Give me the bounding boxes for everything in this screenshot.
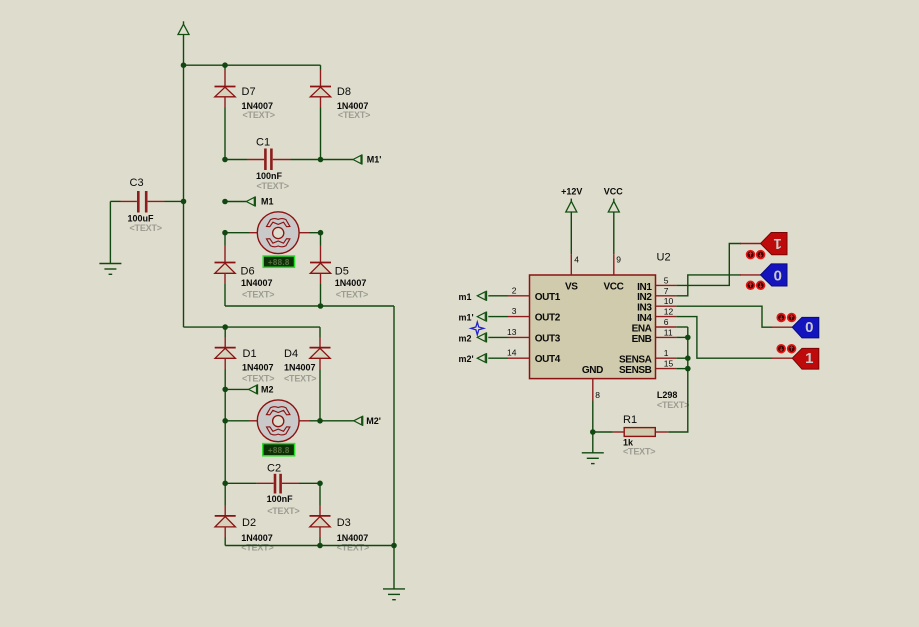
pin 5 IN1 bbox=[656, 275, 677, 285]
capacitor C3 bbox=[110, 177, 183, 233]
svg-text:<TEXT>: <TEXT> bbox=[242, 374, 274, 384]
svg-text:6: 6 bbox=[664, 317, 669, 327]
power symbol VCC bbox=[604, 186, 624, 254]
svg-text:M2': M2' bbox=[366, 416, 381, 426]
wire right vertical to D3 bbox=[319, 483, 321, 505]
diode D3 bbox=[310, 505, 370, 553]
pin 10 IN3 bbox=[656, 296, 677, 306]
svg-text:1N4007: 1N4007 bbox=[284, 362, 316, 372]
svg-text:IN2: IN2 bbox=[637, 292, 652, 303]
svg-text:VCC: VCC bbox=[604, 186, 624, 196]
state pin dots pair2 bbox=[747, 281, 765, 289]
svg-text:<TEXT>: <TEXT> bbox=[267, 506, 299, 516]
svg-text:D1: D1 bbox=[243, 348, 257, 360]
svg-text:11: 11 bbox=[664, 327, 673, 337]
wire IN2 to state 0 bbox=[676, 275, 760, 296]
svg-text:m2': m2' bbox=[459, 354, 474, 364]
svg-text:1: 1 bbox=[774, 235, 782, 252]
pin 14 OUT4 with terminal m2' bbox=[459, 348, 530, 365]
logic state 1 top (red) bbox=[761, 233, 788, 255]
pin 1 SENSA bbox=[656, 348, 677, 358]
svg-text:8: 8 bbox=[595, 390, 600, 400]
svg-text:1: 1 bbox=[805, 350, 813, 367]
svg-text:<TEXT>: <TEXT> bbox=[257, 181, 289, 191]
svg-text:9: 9 bbox=[616, 255, 621, 265]
svg-text:D4: D4 bbox=[284, 348, 298, 360]
svg-text:<TEXT>: <TEXT> bbox=[243, 110, 275, 120]
svg-text:m2: m2 bbox=[459, 333, 472, 343]
svg-text:IN1: IN1 bbox=[637, 282, 652, 293]
svg-text:<TEXT>: <TEXT> bbox=[338, 110, 370, 120]
svg-text:m1': m1' bbox=[459, 313, 474, 323]
svg-text:D6: D6 bbox=[241, 266, 255, 278]
wire IN4 to state 1 bbox=[676, 317, 792, 359]
terminal M1' bbox=[353, 154, 381, 164]
svg-text:15: 15 bbox=[664, 359, 674, 369]
svg-text:C2: C2 bbox=[267, 463, 281, 475]
svg-text:<TEXT>: <TEXT> bbox=[130, 223, 162, 233]
svg-text:R1: R1 bbox=[623, 414, 637, 426]
svg-text:1N4007: 1N4007 bbox=[241, 278, 273, 288]
diode D4 bbox=[284, 327, 331, 421]
wire IN1 to state 1 bbox=[676, 244, 760, 286]
terminal M2' bbox=[354, 416, 381, 426]
svg-text:ENA: ENA bbox=[632, 323, 652, 334]
wire bottom rail bridge1 bbox=[225, 305, 394, 307]
svg-text:7: 7 bbox=[664, 286, 669, 296]
wire bottom rail bridge2 bbox=[225, 545, 394, 547]
svg-text:OUT3: OUT3 bbox=[535, 333, 561, 344]
svg-text:100nF: 100nF bbox=[267, 494, 294, 504]
wire ENA ENB SENSA SENSB bus bbox=[668, 327, 690, 432]
pin 7 IN2 bbox=[656, 286, 677, 296]
logic state 1 bottom (red) bbox=[792, 348, 819, 369]
svg-text:<TEXT>: <TEXT> bbox=[241, 543, 273, 553]
diode D1 bbox=[215, 327, 275, 389]
svg-text:100uF: 100uF bbox=[128, 214, 155, 224]
ground bottom bbox=[383, 589, 405, 600]
svg-text:VCC: VCC bbox=[604, 282, 624, 293]
state pin dots pair1 bbox=[747, 251, 765, 259]
svg-text:C3: C3 bbox=[130, 177, 144, 189]
svg-text:M1: M1 bbox=[261, 197, 274, 207]
svg-text:D3: D3 bbox=[337, 517, 351, 529]
motor M1 readout display bbox=[263, 256, 294, 267]
motor M2 readout display bbox=[263, 444, 295, 456]
svg-text:D7: D7 bbox=[242, 86, 256, 98]
wire left vertical bbox=[183, 65, 185, 327]
svg-text:M1': M1' bbox=[367, 155, 382, 165]
wire to terminal M2 bbox=[225, 388, 248, 390]
svg-text:3: 3 bbox=[512, 306, 517, 316]
svg-text:IN3: IN3 bbox=[637, 303, 652, 314]
svg-text:VS: VS bbox=[565, 282, 578, 293]
svg-text:5: 5 bbox=[664, 275, 669, 285]
state pin dots pair3 bbox=[777, 314, 795, 322]
state pin dots pair4 bbox=[777, 345, 795, 353]
wire top rail bridge2 bbox=[184, 326, 321, 328]
svg-text:10: 10 bbox=[664, 296, 674, 306]
terminal M1 bbox=[246, 196, 273, 206]
svg-text:D2: D2 bbox=[242, 517, 256, 529]
svg-text:<TEXT>: <TEXT> bbox=[336, 290, 368, 300]
svg-text:2: 2 bbox=[512, 285, 517, 295]
svg-text:D5: D5 bbox=[335, 266, 349, 278]
pin 11 ENB bbox=[656, 327, 677, 337]
svg-text:C1: C1 bbox=[256, 137, 270, 149]
svg-text:U2: U2 bbox=[657, 252, 671, 264]
op-amp U2 IC body L298 bbox=[530, 252, 690, 411]
pin 6 ENA bbox=[656, 317, 677, 327]
capacitor C1 bbox=[225, 137, 321, 191]
svg-text:1N4007: 1N4007 bbox=[337, 533, 369, 543]
node dots left circuit bbox=[181, 62, 397, 548]
svg-text:<TEXT>: <TEXT> bbox=[657, 400, 689, 410]
svg-text:M2: M2 bbox=[261, 385, 274, 395]
svg-text:IN4: IN4 bbox=[637, 313, 652, 324]
motor M2 bbox=[225, 400, 320, 442]
resistor R1 bbox=[590, 414, 668, 456]
wire to terminal M1' bbox=[321, 159, 354, 161]
pin 3 OUT2 with terminal m1' bbox=[459, 306, 530, 323]
wire to terminal M1 bbox=[225, 201, 246, 203]
capacitor C2 bbox=[225, 463, 320, 516]
svg-text:<TEXT>: <TEXT> bbox=[337, 543, 369, 553]
svg-text:L298: L298 bbox=[657, 390, 678, 400]
svg-text:100nF: 100nF bbox=[256, 171, 283, 181]
svg-text:1N4007: 1N4007 bbox=[242, 362, 274, 372]
svg-text:+88.8: +88.8 bbox=[268, 258, 290, 267]
svg-text:<TEXT>: <TEXT> bbox=[623, 447, 655, 457]
svg-text:0: 0 bbox=[805, 319, 813, 336]
logic state 0 second (blue) bbox=[761, 264, 788, 286]
terminal M2 bbox=[249, 384, 274, 394]
pin 12 IN4 bbox=[656, 307, 677, 317]
svg-text:4: 4 bbox=[574, 255, 579, 265]
motor M1 bbox=[225, 212, 321, 254]
ground left bbox=[99, 264, 121, 275]
wire left vertical bridge2 bbox=[224, 389, 226, 483]
diode D8 bbox=[310, 65, 370, 159]
svg-text:12: 12 bbox=[664, 307, 674, 317]
svg-text:SENSA: SENSA bbox=[619, 355, 652, 366]
wire IN3 to state 0 bbox=[676, 306, 792, 327]
pin 9 VCC bbox=[614, 254, 622, 275]
svg-text:ENB: ENB bbox=[632, 334, 652, 345]
diode D6 bbox=[215, 233, 275, 306]
svg-text:1N4007: 1N4007 bbox=[241, 533, 273, 543]
svg-text:m1: m1 bbox=[459, 292, 472, 302]
svg-text:+88.8: +88.8 bbox=[268, 446, 290, 455]
pin 2 OUT1 with terminal m1 bbox=[459, 285, 530, 302]
ground under pin 8 bbox=[582, 453, 604, 464]
diode D5 bbox=[310, 233, 368, 306]
wire top rail bridge1 bbox=[184, 64, 321, 66]
svg-text:OUT4: OUT4 bbox=[535, 354, 561, 365]
svg-text:1: 1 bbox=[664, 348, 669, 358]
wire right vertical to ground bbox=[393, 306, 395, 589]
svg-text:GND: GND bbox=[582, 365, 603, 376]
svg-text:D8: D8 bbox=[337, 86, 351, 98]
logic state 0 third (blue) bbox=[792, 317, 819, 338]
pin 13 OUT3 with terminal m2 bbox=[459, 327, 530, 344]
svg-text:SENSB: SENSB bbox=[619, 365, 652, 376]
wire C3 to ground bbox=[109, 201, 111, 263]
power symbol top-left bbox=[178, 21, 189, 65]
wire to terminal M2' bbox=[320, 420, 354, 422]
svg-text:1N4007: 1N4007 bbox=[335, 278, 367, 288]
svg-text:0: 0 bbox=[774, 267, 782, 284]
power symbol +12V bbox=[561, 186, 582, 254]
origin marker blue bbox=[471, 322, 484, 335]
svg-text:+12V: +12V bbox=[561, 186, 582, 196]
svg-text:OUT1: OUT1 bbox=[535, 292, 561, 303]
pin 8 GND bbox=[593, 379, 601, 453]
svg-text:<TEXT>: <TEXT> bbox=[284, 374, 316, 384]
svg-text:14: 14 bbox=[507, 348, 517, 358]
svg-text:13: 13 bbox=[507, 327, 517, 337]
svg-text:<TEXT>: <TEXT> bbox=[242, 290, 274, 300]
wire left vertical to D2 bbox=[224, 483, 226, 505]
svg-text:OUT2: OUT2 bbox=[535, 313, 561, 324]
pin 4 VS bbox=[571, 254, 579, 275]
diode D7 bbox=[215, 65, 275, 159]
pin 15 SENSB bbox=[656, 359, 677, 369]
diode D2 bbox=[215, 505, 274, 553]
